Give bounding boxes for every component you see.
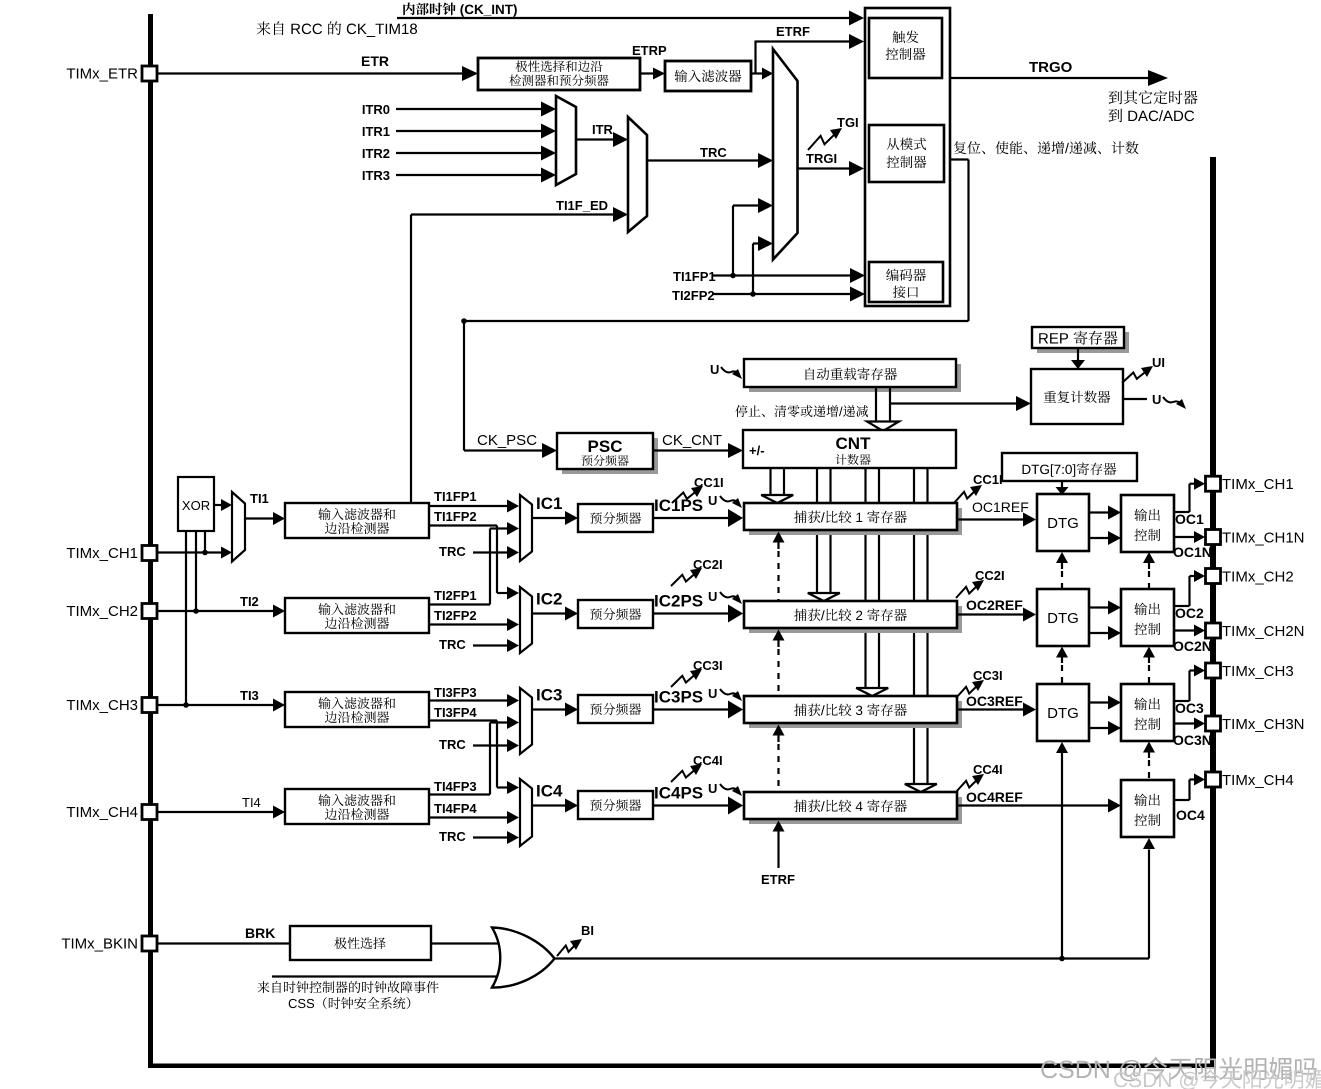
label TI4 — [242, 795, 261, 810]
label OC2REF — [966, 597, 1023, 613]
wire ETRF to trigger controller — [751, 34, 864, 80]
label CC1I (right) — [973, 472, 1003, 487]
left boundary bar — [148, 14, 153, 1068]
wire TI3FP3 — [429, 694, 519, 707]
svg-text:TIMx_CH2N: TIMx_CH2N — [1222, 623, 1305, 640]
label: to other timers — [1109, 90, 1198, 104]
wire U out of repetition counter — [1123, 398, 1147, 400]
svg-text:DTG: DTG — [1047, 610, 1079, 627]
svg-text:TI1FP1: TI1FP1 — [673, 269, 716, 284]
wire ITR0 — [396, 102, 556, 117]
svg-text:OC1REF: OC1REF — [972, 499, 1029, 515]
label TI3FP3 — [434, 685, 477, 700]
wire ITR — [576, 132, 628, 147]
wire ETR — [157, 66, 478, 81]
block: CNT counter — [743, 430, 956, 468]
wire TRC ch1 — [473, 546, 519, 559]
squiggle CC4I right — [956, 774, 984, 792]
port TIMx_BKIN — [61, 936, 157, 953]
label IC1 — [536, 494, 562, 513]
svg-text:TIMx_CH1: TIMx_CH1 — [66, 545, 138, 562]
svg-text:TIMx_ETR: TIMx_ETR — [66, 66, 138, 83]
label U ch2 — [708, 589, 717, 604]
wire TI3 — [157, 699, 285, 712]
wire IC2PS — [653, 605, 743, 623]
label ETR — [361, 53, 389, 69]
svg-text:OC3REF: OC3REF — [966, 693, 1023, 709]
wire OC3REF — [957, 703, 1036, 717]
wire BRK to OR gate — [431, 942, 502, 944]
block: prescaler ch3 — [578, 695, 653, 723]
wire TRC — [647, 153, 773, 168]
svg-text:U: U — [708, 686, 717, 701]
label TRGO — [1029, 59, 1073, 76]
label CC3I (left) — [693, 658, 723, 673]
label CC2I (right) — [975, 568, 1005, 583]
svg-text:UI: UI — [1152, 355, 1165, 370]
svg-text:CC1I: CC1I — [973, 472, 1003, 487]
label IC3 — [536, 686, 562, 705]
wire IC1PS — [653, 509, 743, 527]
box: controller outer — [865, 8, 950, 306]
svg-text:TI4FP4: TI4FP4 — [434, 801, 477, 816]
block: slave mode controller — [869, 125, 944, 182]
svg-text:XOR: XOR — [182, 498, 210, 513]
port TIMx_CH2 — [1206, 568, 1294, 585]
wire IC1 — [532, 511, 578, 525]
svg-text:TIMx_CH3: TIMx_CH3 — [66, 697, 138, 714]
block: output control ch1 — [1121, 495, 1174, 552]
wire BI — [554, 956, 1149, 962]
label CC4I (right) — [973, 762, 1003, 777]
block: prescaler ch2 — [578, 600, 653, 628]
svg-text:TI1F_ED: TI1F_ED — [556, 198, 608, 213]
block: trigger controller — [869, 18, 942, 78]
block: input filter & edge detector ch4 — [285, 789, 429, 824]
svg-text:IC1PS: IC1PS — [654, 496, 703, 515]
svg-text:TI2: TI2 — [240, 594, 259, 609]
svg-text:IC4PS: IC4PS — [654, 784, 703, 803]
block: input filter & edge detector ch2 — [285, 598, 429, 633]
squiggle CC2I right — [956, 580, 984, 598]
hollow arrow CNT to CC2 — [808, 468, 840, 601]
svg-text:U: U — [708, 781, 717, 796]
watermark CSDN — [1041, 1057, 1316, 1082]
dashed wire OC2 to OC1 control — [1143, 552, 1155, 588]
wire CK_INT — [397, 11, 864, 26]
label UI — [1152, 355, 1165, 370]
label: from RCC CK_TIM18 — [257, 21, 418, 37]
block: output control ch3 — [1121, 684, 1174, 741]
block: input filter & edge detector ch1 — [285, 503, 429, 538]
label ITR2 — [362, 146, 390, 161]
svg-text:TI4: TI4 — [242, 795, 261, 810]
squiggle U autoreload — [721, 367, 742, 379]
wire OC2REF — [957, 608, 1036, 622]
label BRK — [245, 925, 275, 941]
svg-text:DTG: DTG — [1047, 515, 1079, 532]
wire DTG2 out lower — [1089, 626, 1121, 640]
wire REP to repetition counter — [1071, 348, 1085, 369]
wire TI4 — [157, 806, 285, 819]
port TIMx_CH4 — [1206, 772, 1294, 789]
svg-text:ETRF: ETRF — [776, 24, 810, 39]
label IC4 — [536, 782, 563, 801]
label: stop/clear/updown — [735, 405, 868, 417]
label U ch1 — [708, 493, 717, 508]
label ETRF (bottom) — [761, 872, 795, 887]
svg-text:IC3PS: IC3PS — [654, 688, 703, 707]
label ETRP — [632, 43, 667, 58]
squiggle TGI — [808, 128, 842, 150]
wire ITR1 — [396, 124, 556, 139]
wire OC4REF — [957, 799, 1121, 813]
wire TRC ch2 — [473, 639, 519, 652]
label TGI — [837, 115, 859, 130]
svg-text:TI3FP4: TI3FP4 — [434, 705, 477, 720]
svg-text:ITR1: ITR1 — [362, 124, 390, 139]
label OC3 — [1175, 700, 1204, 716]
svg-text:IC3: IC3 — [536, 686, 562, 705]
svg-text:CC3I: CC3I — [973, 668, 1003, 683]
mux: IC4 selector — [520, 779, 532, 846]
block: polarity selection (BRK) — [290, 926, 431, 960]
wire IC4 — [532, 799, 578, 813]
svg-text:PSC: PSC — [588, 437, 623, 456]
wire OC1REF — [957, 513, 1036, 527]
wire DTG2 out upper — [1089, 601, 1121, 615]
port TIMx_CH1 — [66, 545, 157, 562]
block: output control ch4 — [1121, 780, 1174, 837]
squiggle UI — [1122, 366, 1153, 383]
svg-text:TI3: TI3 — [240, 688, 259, 703]
wire TI4FP4 — [429, 811, 519, 824]
svg-text:U: U — [708, 493, 717, 508]
svg-text:ITR0: ITR0 — [362, 102, 390, 117]
label TI3 — [240, 688, 259, 703]
dashed wire CC3 to CC2 — [773, 630, 785, 696]
svg-text:OC1N: OC1N — [1173, 544, 1212, 560]
svg-text:U: U — [1152, 392, 1161, 407]
block: capture/compare 4 register — [744, 792, 962, 824]
label TI1 — [250, 491, 269, 506]
wire IC3 — [532, 703, 578, 717]
label IC2 — [536, 590, 562, 609]
svg-text:TI2FP2: TI2FP2 — [434, 608, 477, 623]
mux: TRC selector — [628, 117, 647, 232]
hollow arrow CNT to CC1 — [761, 468, 793, 503]
wire DTG1 out upper — [1089, 506, 1121, 520]
label TI3FP4 — [434, 705, 477, 720]
label TI1F_ED — [556, 198, 608, 213]
block: output control ch2 — [1121, 589, 1174, 646]
port TIMx_CH1N — [1206, 529, 1305, 546]
svg-text:OC1: OC1 — [1175, 511, 1204, 527]
wire TRGO — [950, 70, 1168, 86]
block: XOR — [178, 477, 214, 531]
svg-text:TIMx_CH3N: TIMx_CH3N — [1222, 716, 1305, 733]
port TIMx_CH4 — [66, 804, 157, 821]
squiggle U ch2 — [720, 592, 742, 604]
svg-text:TIMx_BKIN: TIMx_BKIN — [61, 936, 138, 953]
squiggle U repetition — [1163, 397, 1186, 409]
wire TRC ch4 — [473, 831, 519, 844]
label: CSS — [289, 997, 411, 1009]
wire ETRF to CC4 — [773, 821, 785, 869]
svg-text:IC2PS: IC2PS — [654, 592, 703, 611]
label TRC ch1 — [439, 544, 466, 559]
svg-text:CK_CNT: CK_CNT — [662, 432, 722, 449]
wire slave-mode to CK_PSC — [461, 160, 968, 451]
label TI1FP2 — [434, 509, 477, 524]
squiggle CC4I left — [671, 764, 702, 782]
svg-text:TRC: TRC — [439, 544, 466, 559]
label TRC — [700, 145, 727, 160]
wire IC2 — [532, 607, 578, 621]
wire TI1FP1 — [429, 500, 519, 513]
label U ch3 — [708, 686, 717, 701]
port TIMx_ETR — [66, 66, 157, 83]
label IC2PS — [654, 592, 703, 611]
wire TI2FP1 to IC1 — [429, 522, 519, 605]
label OC4 — [1176, 807, 1205, 823]
dashed wire OC4 to OC3 control — [1143, 742, 1155, 780]
wire BRK — [157, 942, 290, 944]
block: input filter & edge detector ch3 — [285, 692, 429, 727]
hollow arrow CNT to CC4 — [905, 468, 937, 792]
wire XOR input 1 — [204, 531, 206, 553]
label CC1I (left) — [694, 475, 724, 490]
label TI1FP1 (trigger) — [673, 269, 716, 284]
squiggle CC1I left — [672, 486, 703, 503]
svg-text:TIMx_CH4: TIMx_CH4 — [66, 804, 138, 821]
svg-text:U: U — [710, 362, 719, 377]
wire CH1 to TI1 mux — [157, 547, 232, 559]
label OC2N — [1173, 638, 1212, 654]
hollow arrow CNT to CC3 — [856, 468, 888, 696]
label CC3I (right) — [973, 668, 1003, 683]
svg-text:OC3N: OC3N — [1173, 732, 1212, 748]
port TIMx_CH3 — [1206, 663, 1294, 680]
svg-text:TIMx_CH1N: TIMx_CH1N — [1222, 529, 1305, 546]
wire DTG register to DTG1 — [1056, 481, 1069, 495]
label: reset/enable/updown/count — [954, 141, 1139, 154]
svg-text:TIMx_CH1: TIMx_CH1 — [1222, 476, 1294, 493]
block: auto-reload register — [744, 359, 961, 392]
block: polarity selection & edge detector & prescaler — [478, 58, 640, 90]
block: prescaler ch4 — [578, 791, 653, 819]
wire TI1F_ED — [411, 207, 628, 503]
label TRC ch4 — [439, 829, 466, 844]
label CK_CNT — [662, 432, 722, 449]
wire TRC ch3 — [473, 739, 519, 752]
port TIMx_CH3N — [1206, 716, 1305, 733]
block: DTG ch3 — [1037, 684, 1089, 741]
label U ch4 — [708, 781, 717, 796]
wire TI4FP3 to IC3 — [429, 716, 519, 795]
squiggle CC2I left — [671, 568, 702, 586]
svg-text:CK_PSC: CK_PSC — [477, 432, 537, 449]
svg-text:TI1FP1: TI1FP1 — [434, 489, 477, 504]
wire DTG3 out lower — [1089, 721, 1121, 735]
wire ARR to repetition counter — [890, 396, 1031, 411]
svg-text:OC2N: OC2N — [1173, 638, 1212, 654]
svg-text:TIMx_CH3: TIMx_CH3 — [1222, 663, 1294, 680]
label TI4FP4 — [434, 801, 477, 816]
wire XOR input 3 — [183, 531, 189, 708]
svg-text:OC4REF: OC4REF — [966, 789, 1023, 805]
svg-text:IC2: IC2 — [536, 590, 562, 609]
svg-text:TRGO: TRGO — [1029, 59, 1073, 76]
svg-text:U: U — [708, 589, 717, 604]
wire IC4PS — [653, 797, 743, 815]
label: internal clock CK_INT — [403, 3, 517, 17]
wire TI3FP4 to IC4 — [429, 721, 519, 795]
svg-text:DTG: DTG — [1047, 705, 1079, 722]
svg-text:BI: BI — [581, 923, 594, 938]
svg-text:ITR: ITR — [592, 122, 614, 137]
wire TI2 — [157, 605, 285, 618]
squiggle U ch3 — [720, 689, 742, 701]
wire TI2FP2 to encoder/mux — [712, 236, 865, 302]
block: capture/compare 3 register — [744, 696, 962, 728]
svg-text:CC2I: CC2I — [975, 568, 1005, 583]
svg-text:ETRF: ETRF — [761, 872, 795, 887]
dashed wire CC4 to CC3 — [773, 725, 785, 792]
label OC3N — [1173, 732, 1212, 748]
wire DTG3 out upper — [1089, 696, 1121, 710]
wire TI1FP2 to IC2 — [429, 526, 519, 600]
svg-text:TRC: TRC — [439, 829, 466, 844]
svg-text:TI3FP3: TI3FP3 — [434, 685, 477, 700]
wire XOR output — [214, 499, 232, 511]
label TI4FP3 — [434, 779, 477, 794]
wire OC3 — [1174, 665, 1205, 702]
wire OC1 — [1174, 478, 1205, 512]
svg-text:TIMx_CH2: TIMx_CH2 — [1222, 568, 1294, 585]
wire OC2 — [1174, 570, 1205, 606]
wire IC3PS — [653, 701, 743, 719]
svg-text:TI2FP1: TI2FP1 — [434, 588, 477, 603]
block: PSC prescaler — [557, 433, 658, 474]
svg-text:OC3: OC3 — [1175, 700, 1204, 716]
wire XOR input 2 — [193, 531, 199, 614]
wire CK_CNT — [653, 443, 743, 458]
bottom boundary line — [148, 1064, 1216, 1069]
mux: trigger input selector — [773, 49, 798, 260]
svg-text:BRK: BRK — [245, 925, 275, 941]
wire BRK line to DTG3 — [1056, 742, 1068, 959]
label OC2 — [1175, 605, 1204, 621]
label IC1PS — [654, 496, 703, 515]
label: clock failure event — [258, 981, 439, 993]
block: prescaler ch1 — [578, 504, 653, 532]
label ITR0 — [362, 102, 390, 117]
wire TI1 — [245, 512, 285, 525]
block: DTG[7:0] register — [1002, 453, 1137, 481]
port TIMx_CH2 — [66, 603, 157, 620]
wire ITR3 — [396, 168, 556, 183]
block: encoder interface — [869, 262, 943, 302]
svg-text:TI4FP3: TI4FP3 — [434, 779, 477, 794]
block: capture/compare 1 register — [744, 503, 962, 535]
squiggle U ch1 — [720, 496, 742, 508]
squiggle CC3I left — [671, 669, 702, 687]
block: repetition counter — [1031, 369, 1123, 424]
label TRGI — [806, 151, 837, 166]
label TRC ch3 — [439, 737, 466, 752]
port TIMx_CH2N — [1206, 623, 1305, 640]
wire TI1FP1 to encoder/mux — [712, 198, 865, 283]
gate: OR (break) — [492, 928, 555, 988]
svg-text:OC2: OC2 — [1175, 605, 1204, 621]
svg-text:CC4I: CC4I — [973, 762, 1003, 777]
label TI2FP1 — [434, 588, 477, 603]
label: to DAC/ADC — [1109, 109, 1195, 123]
label U (autoreload) — [710, 362, 719, 377]
svg-text:OC4: OC4 — [1176, 807, 1205, 823]
label ITR1 — [362, 124, 390, 139]
port TIMx_CH3 — [66, 697, 157, 714]
wire ITR2 — [396, 146, 556, 161]
svg-text:ETR: ETR — [361, 53, 389, 69]
block: input filter (ETR) — [665, 61, 751, 91]
svg-text:TRC: TRC — [700, 145, 727, 160]
svg-text:TI1FP2: TI1FP2 — [434, 509, 477, 524]
mux: ITR selector — [556, 96, 576, 185]
svg-text:TIMx_CH2: TIMx_CH2 — [66, 603, 138, 620]
label U (repetition) — [1152, 392, 1161, 407]
mux: IC2 selector — [520, 587, 532, 653]
label OC1 — [1175, 511, 1204, 527]
right boundary bar — [1210, 157, 1216, 1068]
svg-text:IC4: IC4 — [536, 782, 563, 801]
label OC4REF — [966, 789, 1023, 805]
label IC3PS — [654, 688, 703, 707]
hollow arrow ARR to CNT — [867, 387, 899, 431]
label BI — [581, 923, 594, 938]
svg-text:TRC: TRC — [439, 737, 466, 752]
svg-text:ETRP: ETRP — [632, 43, 667, 58]
wire BRK line to OC4 control — [1143, 838, 1155, 959]
svg-text:ITR2: ITR2 — [362, 146, 390, 161]
svg-text:OC2REF: OC2REF — [966, 597, 1023, 613]
block: REP register — [1032, 327, 1129, 353]
block: DTG ch2 — [1037, 589, 1089, 646]
dashed wire CC2 to CC1 — [773, 532, 785, 601]
label TI1FP1 — [434, 489, 477, 504]
svg-text:TIMx_CH4: TIMx_CH4 — [1222, 772, 1294, 789]
label TI2FP2 — [434, 608, 477, 623]
wire TI2FP2 — [429, 618, 519, 631]
squiggle CC1I right — [954, 485, 982, 503]
label ITR — [592, 122, 614, 137]
label TI2FP2 (trigger) — [672, 288, 715, 303]
svg-text:TRGI: TRGI — [806, 151, 837, 166]
mux: IC1 selector — [520, 495, 532, 561]
label OC1N — [1173, 544, 1212, 560]
svg-text:CNT: CNT — [836, 434, 872, 453]
wire TRGI — [798, 161, 865, 176]
dashed wire OC3 to OC2 control — [1143, 647, 1155, 684]
svg-text:+/-: +/- — [749, 443, 765, 458]
svg-text:TI2FP2: TI2FP2 — [672, 288, 715, 303]
label CK_PSC — [477, 432, 537, 449]
squiggle U ch4 — [720, 784, 742, 796]
wire OC3N — [1174, 718, 1205, 730]
svg-text:TI1: TI1 — [250, 491, 269, 506]
label IC4PS — [654, 784, 703, 803]
